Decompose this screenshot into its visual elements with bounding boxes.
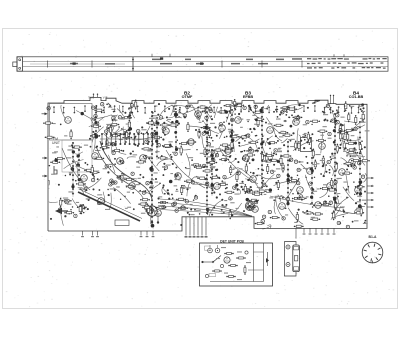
solder pad row 12 bbox=[129, 107, 131, 134]
resistor R52 bbox=[263, 160, 273, 162]
resistor R35 bbox=[278, 131, 288, 133]
transistor Q23 bbox=[107, 125, 114, 132]
resistor R85 bbox=[331, 178, 333, 188]
capacitor C39 bbox=[254, 105, 257, 108]
resistor R55 bbox=[70, 129, 72, 139]
transistor Q11 bbox=[98, 198, 105, 205]
resistor R67 bbox=[64, 212, 74, 214]
resistor R44 bbox=[110, 135, 120, 137]
resistor R6 bbox=[145, 202, 147, 212]
capacitor C23 bbox=[209, 109, 212, 112]
wire bbox=[210, 281, 264, 283]
FM unit lower outline bbox=[62, 140, 92, 172]
resistor R23 bbox=[321, 203, 331, 205]
capacitor C90 bbox=[328, 132, 331, 135]
test-point arrow C bbox=[42, 175, 48, 178]
capacitor C1 bbox=[162, 127, 165, 130]
resistor R86 bbox=[91, 165, 93, 175]
capacitor C89 bbox=[231, 118, 234, 121]
capacitor C69 bbox=[112, 116, 115, 119]
resistor R14 bbox=[343, 163, 353, 165]
capacitor C81 bbox=[205, 116, 208, 119]
wire to dial-lamp board 3 bbox=[193, 217, 196, 238]
resistor R34 bbox=[360, 206, 362, 216]
capacitor C64 bbox=[336, 121, 339, 124]
solder pad row 14 bbox=[231, 109, 233, 146]
resistor R54 bbox=[310, 120, 320, 122]
capacitor C5 bbox=[164, 166, 167, 169]
resistor R53 bbox=[347, 132, 349, 142]
capacitor C101 bbox=[229, 197, 232, 200]
resistor R72 bbox=[77, 206, 87, 208]
copper traces bbox=[48, 103, 367, 229]
capacitor C6 bbox=[354, 127, 357, 130]
capacitor C17 bbox=[186, 105, 189, 108]
resistor R51 bbox=[184, 180, 194, 182]
wire bbox=[248, 269, 264, 271]
capacitor C42 bbox=[111, 181, 114, 184]
capacitor C91 bbox=[142, 191, 145, 194]
resistor R135 bbox=[201, 126, 211, 128]
capacitor C26 bbox=[207, 143, 210, 146]
resistor R96 bbox=[257, 190, 267, 192]
transistor Q19 bbox=[315, 202, 322, 209]
capacitor C15 bbox=[144, 155, 147, 158]
resistor R16 bbox=[50, 161, 60, 163]
resistor R24 bbox=[76, 183, 86, 185]
transistor Q41 bbox=[224, 257, 230, 263]
resistor R36 bbox=[347, 149, 357, 151]
terminal node bbox=[201, 261, 213, 263]
wire bundle 2 bbox=[160, 203, 252, 217]
wire bundle 4 bbox=[160, 210, 252, 217]
wire to dial-lamp board 5 bbox=[201, 217, 204, 238]
solder pad row 5 bbox=[206, 107, 208, 214]
transistor Q6 bbox=[214, 183, 221, 190]
resistor R13 bbox=[236, 172, 238, 182]
resistor R46 bbox=[336, 144, 338, 154]
capacitor C3 bbox=[327, 160, 330, 163]
transistor Q12 bbox=[252, 206, 259, 213]
solder pad row 9 bbox=[334, 113, 336, 206]
component row bbox=[53, 105, 359, 114]
resistor R3 bbox=[55, 157, 65, 159]
svg-text:CO1-BB: CO1-BB bbox=[349, 95, 364, 99]
junction blobs bbox=[54, 103, 364, 227]
resistor R64 bbox=[224, 191, 234, 193]
label VB bbox=[103, 96, 108, 100]
capacitor C72 bbox=[274, 149, 277, 152]
capacitor C76 bbox=[270, 170, 273, 173]
resistor R162 bbox=[112, 149, 122, 151]
resistor R203 bbox=[228, 264, 238, 266]
connector B1-A bbox=[362, 242, 383, 263]
transistor Q34 bbox=[247, 203, 254, 210]
transistor Q15 bbox=[155, 210, 162, 217]
connector label B3 bbox=[243, 91, 254, 100]
resistor R73 bbox=[312, 149, 314, 159]
resistor R79 bbox=[141, 148, 151, 150]
capacitor C19 bbox=[294, 160, 297, 163]
wire to dial-lamp board 1 bbox=[185, 217, 188, 238]
resistor R25 bbox=[109, 123, 119, 125]
dial lamp unit board outline bbox=[200, 243, 273, 286]
label TUN bbox=[88, 96, 94, 100]
pin stub x316 bbox=[315, 228, 318, 234]
capacitor C43 bbox=[94, 114, 97, 117]
transistor Q20 bbox=[129, 183, 136, 190]
transistor Q30 bbox=[297, 187, 304, 194]
resistor R121 bbox=[122, 117, 132, 119]
resistor R157 bbox=[208, 128, 210, 138]
resistor R152 bbox=[244, 184, 246, 194]
resistor R125 bbox=[245, 191, 255, 193]
resistor R154 bbox=[223, 150, 233, 152]
resistor R76 bbox=[128, 120, 130, 130]
transistor Q22 bbox=[81, 175, 88, 182]
resistor R69 bbox=[94, 109, 104, 111]
capacitor C38 bbox=[331, 119, 334, 122]
transistor Q14 bbox=[147, 207, 154, 214]
resistor R132 bbox=[181, 185, 183, 195]
capacitor C34 bbox=[283, 108, 286, 111]
solder pad row 7 bbox=[261, 107, 263, 196]
main PCB outline bbox=[48, 97, 367, 231]
resistor R9 bbox=[138, 203, 148, 205]
resistor R126 bbox=[210, 176, 220, 178]
capacitor C102 bbox=[262, 183, 265, 186]
transistor Q29 bbox=[267, 127, 274, 134]
capacitor C31 bbox=[172, 203, 175, 206]
capacitor C4 bbox=[336, 114, 339, 117]
capacitor C70 bbox=[309, 182, 312, 185]
resistor R112 bbox=[335, 162, 337, 172]
capacitor C11 bbox=[105, 130, 108, 133]
resistor R101 bbox=[198, 106, 208, 108]
capacitor C46 bbox=[225, 146, 228, 149]
resistor R110 bbox=[126, 186, 136, 188]
resistor R42 bbox=[335, 201, 337, 211]
resistor R81 bbox=[45, 136, 55, 138]
resistor R84 bbox=[277, 180, 279, 190]
transistor Q24 bbox=[140, 155, 147, 162]
capacitor C82 bbox=[297, 181, 300, 184]
resistor R37 bbox=[109, 125, 111, 135]
capacitor C78 bbox=[202, 164, 205, 167]
resistor R133 bbox=[282, 163, 284, 173]
edge tick 1 bbox=[367, 177, 374, 179]
resistor R18 bbox=[304, 212, 314, 214]
capacitor C9 bbox=[97, 201, 100, 204]
resistor R31 bbox=[354, 212, 364, 214]
diode D41 bbox=[266, 252, 269, 266]
transistor Q10 bbox=[327, 183, 334, 190]
transistor Q26 bbox=[195, 111, 202, 118]
resistor R91 bbox=[253, 111, 263, 113]
label node bbox=[205, 246, 211, 250]
transistor Q27 bbox=[219, 125, 226, 132]
capacitor C79 bbox=[105, 165, 108, 168]
switch S1 bbox=[212, 256, 221, 263]
resistor R57 bbox=[257, 117, 259, 127]
capacitor C21 bbox=[183, 114, 186, 117]
capacitor C59 bbox=[247, 190, 250, 193]
resistor R143 bbox=[287, 108, 297, 110]
capacitor C87 bbox=[286, 197, 289, 200]
resistor R149 bbox=[158, 201, 168, 203]
resistor R146 bbox=[135, 100, 137, 110]
resistor R155 bbox=[126, 130, 128, 140]
resistor R111 bbox=[168, 124, 178, 126]
resistor R32 bbox=[160, 124, 170, 126]
resistor R145 bbox=[239, 136, 249, 138]
pin stub x97 bbox=[96, 231, 99, 237]
capacitor C62 bbox=[277, 174, 280, 177]
capacitor C66 bbox=[281, 111, 284, 114]
resistor R5 bbox=[316, 139, 326, 141]
paper texture bbox=[5, 31, 397, 307]
label FM UNIT bbox=[52, 137, 60, 145]
resistor R97 bbox=[207, 161, 217, 163]
resistor R4 bbox=[178, 207, 188, 209]
resistor R118 bbox=[317, 130, 327, 132]
capacitor C7 bbox=[346, 225, 349, 228]
transistor Q33 bbox=[355, 187, 362, 194]
pin stub x334 bbox=[333, 228, 336, 234]
capacitor C22 bbox=[209, 107, 212, 110]
transistor Q5 bbox=[225, 148, 232, 155]
solder pad row 6 bbox=[211, 149, 213, 196]
capacitor C65 bbox=[91, 106, 94, 109]
resistor R90 bbox=[297, 197, 307, 199]
resistor R11 bbox=[176, 198, 186, 200]
solder pad row 11 bbox=[95, 107, 97, 138]
resistor R204 bbox=[212, 270, 222, 272]
transistor Q2 bbox=[117, 158, 124, 165]
resistor R100 bbox=[344, 129, 354, 131]
transistor Q16 bbox=[235, 117, 242, 124]
resistor R115 bbox=[281, 155, 291, 157]
svg-text:TUN: TUN bbox=[88, 96, 94, 100]
transistor Q31 bbox=[319, 143, 326, 150]
resistor R75 bbox=[245, 154, 255, 156]
capacitor C98 bbox=[206, 182, 209, 185]
transistor Q9 bbox=[342, 133, 349, 140]
resistor R82 bbox=[121, 173, 123, 183]
capacitor C103 bbox=[146, 182, 149, 185]
capacitor C33 bbox=[290, 158, 293, 161]
resistor R83 bbox=[252, 193, 262, 195]
resistor R22 bbox=[267, 164, 269, 174]
pin stub x153 bbox=[152, 231, 155, 237]
capacitor C56 bbox=[297, 168, 300, 171]
capacitor C49 bbox=[110, 179, 113, 182]
resistor R58 bbox=[94, 157, 104, 159]
edge tick 4 bbox=[367, 199, 374, 201]
resistor R123 bbox=[60, 198, 62, 208]
resistor R105 bbox=[158, 157, 168, 159]
wire bbox=[254, 251, 264, 253]
label node 2 bbox=[209, 274, 216, 277]
solder pad row 4 bbox=[156, 117, 158, 160]
capacitor C53 bbox=[194, 196, 197, 199]
capacitor C77 bbox=[101, 103, 104, 106]
resistor R38 bbox=[314, 159, 316, 169]
capacitor C60 bbox=[358, 162, 361, 165]
capacitor C67 bbox=[162, 205, 165, 208]
resistor R142 bbox=[339, 123, 341, 133]
pin stub x304 bbox=[303, 228, 306, 234]
resistor R89 bbox=[242, 189, 252, 191]
resistor R40 bbox=[298, 141, 300, 151]
resistor R129 bbox=[267, 142, 277, 144]
resistor R61 bbox=[245, 164, 247, 174]
wide trace bbox=[78, 190, 142, 222]
capacitor C18 bbox=[202, 132, 205, 135]
coil L5 bbox=[147, 206, 157, 216]
resistor R168 bbox=[346, 142, 356, 144]
resistor R138 bbox=[343, 141, 345, 151]
capacitor C107 bbox=[254, 200, 257, 203]
dial assembly strip bbox=[13, 54, 388, 71]
resistor R161 bbox=[348, 112, 350, 122]
capacitor C74 bbox=[243, 106, 246, 109]
capacitor C12 bbox=[211, 151, 214, 154]
label DET UNIT PCB bbox=[220, 240, 244, 244]
capacitor C202 bbox=[220, 264, 223, 267]
pin stub x92 bbox=[91, 231, 94, 237]
connector pad block bbox=[100, 133, 160, 145]
transistor Q8 bbox=[307, 168, 314, 175]
resistor R140 bbox=[162, 145, 172, 147]
svg-text:EFBB: EFBB bbox=[243, 95, 254, 99]
capacitor C44 bbox=[323, 201, 326, 204]
dial lamp LA1 bbox=[293, 245, 300, 272]
capacitor C51 bbox=[145, 140, 148, 143]
solder pad row 2 bbox=[78, 149, 80, 176]
capacitor C100 bbox=[282, 217, 285, 220]
coil L42 bbox=[215, 245, 220, 253]
transistor Q3 bbox=[163, 128, 170, 135]
wire to dial-lamp board 6 bbox=[205, 217, 208, 238]
resistor R119 bbox=[313, 213, 323, 215]
resistor R65 bbox=[266, 153, 268, 163]
resistor R26 bbox=[43, 122, 53, 124]
resistor R150 bbox=[282, 134, 292, 136]
capacitor C104 bbox=[247, 134, 250, 137]
solder pad row 15 bbox=[311, 157, 313, 204]
label box bbox=[115, 220, 129, 226]
capacitor C99 bbox=[91, 178, 94, 181]
resistor R206 bbox=[244, 265, 246, 275]
label B1-A bbox=[369, 235, 377, 239]
resistor R1 bbox=[146, 122, 156, 124]
capacitor C83 bbox=[174, 152, 177, 155]
capacitor C71 bbox=[112, 143, 115, 146]
silkscreen text bbox=[216, 247, 251, 280]
capacitor C14 bbox=[237, 172, 240, 175]
pin stub x147 bbox=[146, 231, 149, 237]
capacitor C97 bbox=[173, 202, 176, 205]
capacitor C96 bbox=[112, 151, 115, 154]
capacitor C92 bbox=[96, 122, 99, 125]
transistor Q25 bbox=[175, 173, 182, 180]
edge tick 3 bbox=[367, 192, 374, 194]
FM unit module outline bbox=[50, 104, 93, 141]
capacitor C80 bbox=[137, 129, 140, 132]
resistor R117 bbox=[355, 115, 357, 125]
resistor R124 bbox=[248, 141, 258, 143]
resistor R60 bbox=[219, 158, 229, 160]
mounting hole 2 bbox=[286, 263, 290, 267]
capacitor C29 bbox=[249, 148, 252, 151]
resistor R153 bbox=[254, 118, 264, 120]
drive arrow bbox=[55, 208, 68, 214]
resistor R122 bbox=[249, 199, 259, 201]
resistor R148 bbox=[289, 179, 299, 181]
wire bbox=[295, 228, 297, 238]
resistor R28 bbox=[191, 164, 201, 166]
resistor R136 bbox=[255, 222, 265, 224]
capacitor C13 bbox=[58, 208, 61, 211]
capacitor C61 bbox=[268, 210, 271, 213]
flag marker bbox=[54, 166, 57, 174]
wire bbox=[263, 243, 265, 282]
resistor R45 bbox=[230, 136, 240, 138]
transistor Q17 bbox=[293, 119, 300, 126]
capacitor C35 bbox=[233, 186, 236, 189]
resistor R70 bbox=[140, 199, 150, 201]
capacitor C45 bbox=[130, 104, 133, 107]
resistor R128 bbox=[198, 129, 200, 139]
solder pad row 3 bbox=[151, 111, 153, 227]
resistor R116 bbox=[163, 145, 173, 147]
long traces bbox=[62, 141, 344, 208]
resistor R201 bbox=[224, 252, 234, 254]
capacitor C52 bbox=[329, 201, 332, 204]
resistor R164 bbox=[106, 138, 108, 148]
test-point arrow A bbox=[42, 112, 48, 115]
resistor R144 bbox=[340, 131, 342, 141]
resistor R39 bbox=[292, 197, 302, 199]
capacitor C201 bbox=[245, 251, 248, 254]
test-point arrow B bbox=[42, 157, 48, 160]
capacitor C93 bbox=[150, 168, 153, 171]
resistor R107 bbox=[122, 136, 132, 138]
capacitor C63 bbox=[114, 181, 117, 184]
transistor Q21 bbox=[65, 117, 72, 124]
resistor R139 bbox=[280, 107, 290, 109]
resistor R10 bbox=[230, 165, 232, 175]
solder pad row 8 bbox=[287, 141, 289, 204]
wire bbox=[284, 242, 296, 246]
capacitor C75 bbox=[185, 200, 188, 203]
capacitor C86 bbox=[121, 160, 124, 163]
wire bundle 1 bbox=[160, 199, 252, 216]
resistor R63 bbox=[307, 132, 309, 142]
resistor R88 bbox=[80, 204, 82, 214]
resistor R8 bbox=[179, 142, 189, 144]
resistor R48 bbox=[187, 122, 189, 132]
capacitor C24 bbox=[306, 120, 309, 123]
resistor R102 bbox=[186, 141, 196, 143]
resistor R103 bbox=[147, 205, 149, 215]
resistor R27 bbox=[90, 135, 100, 137]
resistor R59 bbox=[105, 143, 115, 145]
pin stub x310 bbox=[309, 228, 312, 234]
IF can T3 bbox=[301, 138, 312, 152]
resistor R202 bbox=[236, 257, 246, 259]
